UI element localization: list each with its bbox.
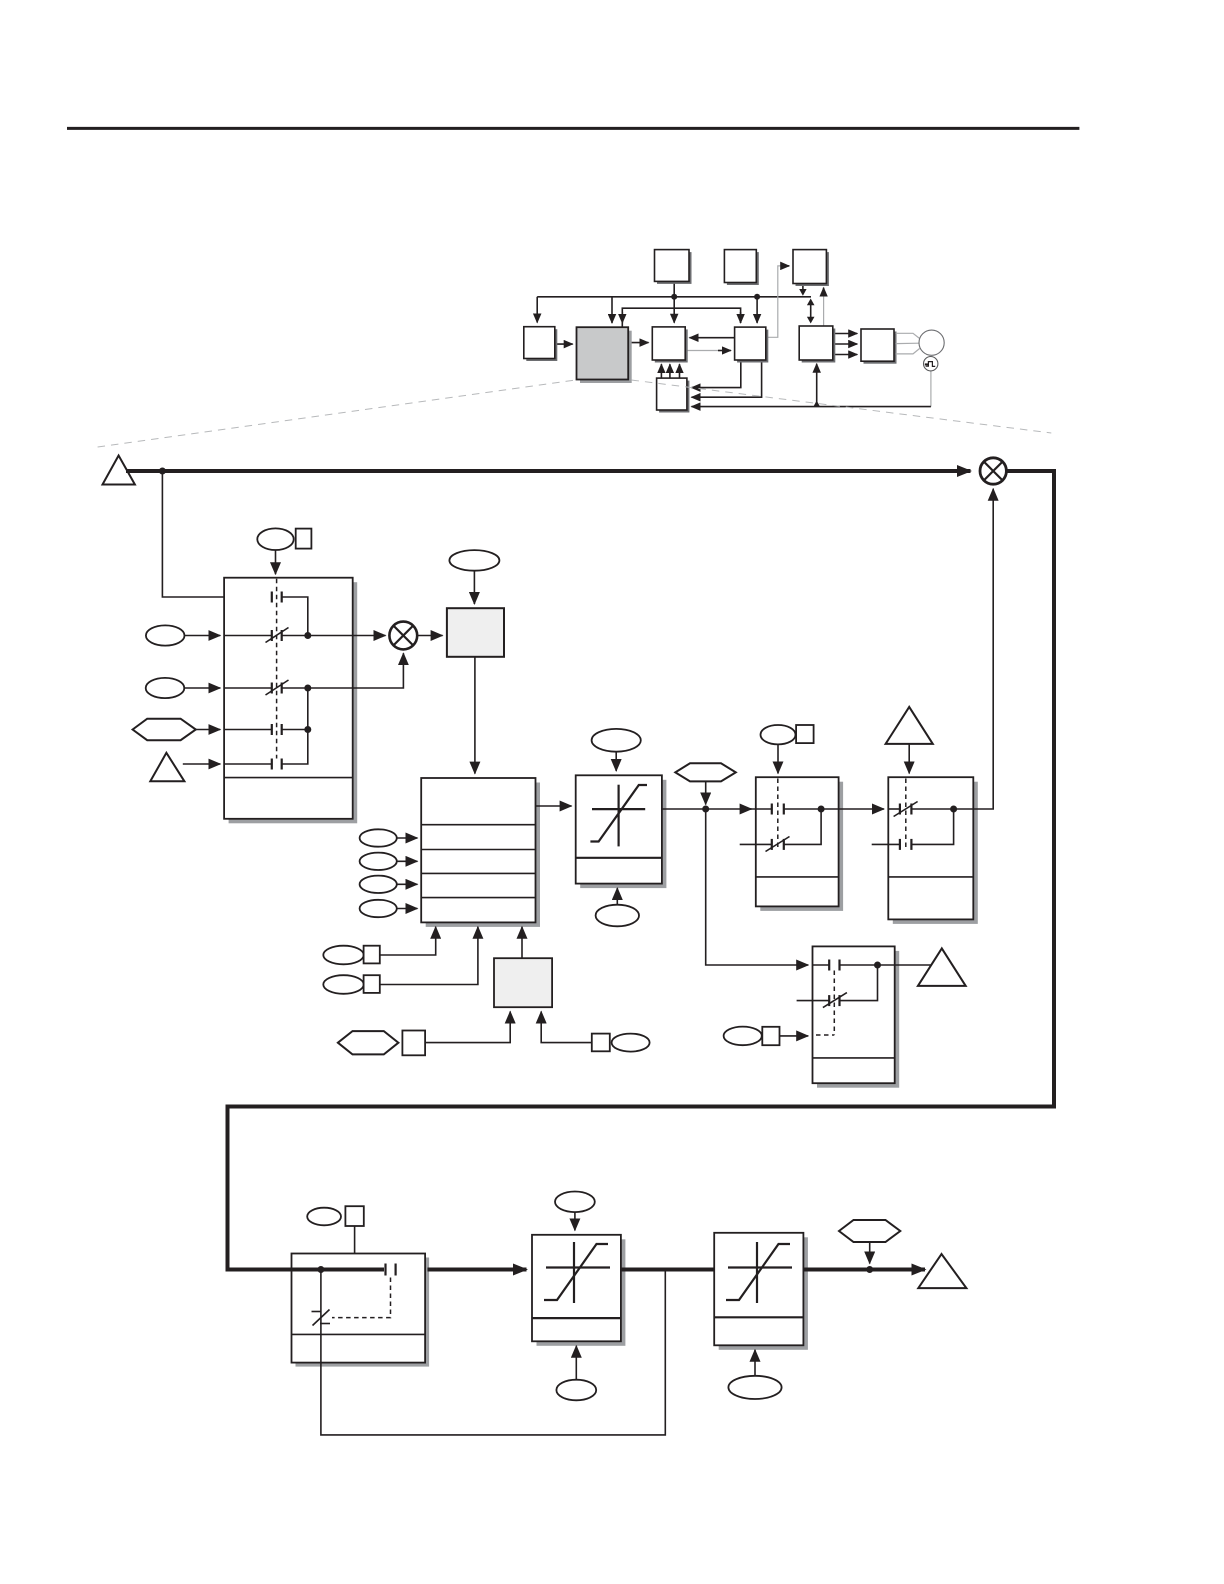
- wire: bus1 drop to OL4: [756, 297, 758, 323]
- wire: row2 out: [282, 635, 308, 637]
- BOX4 divider: [813, 1057, 895, 1059]
- BOXB contact row1 (slashed): [888, 808, 900, 810]
- BOXA shadow: [760, 782, 843, 911]
- input oval IV2: [146, 678, 185, 698]
- BOXA speed hold box: [756, 777, 839, 906]
- wire: box OB1 drop to OL3: [673, 281, 675, 322]
- wire: PO5 drop line into BOX5: [354, 1226, 356, 1254]
- node after RAMP1: [702, 806, 709, 813]
- wire: bus2 right drop arrow into OL4: [740, 312, 742, 323]
- box OB2: [727, 252, 759, 285]
- wire: P4 up into FUNC bottom: [380, 927, 478, 985]
- FUNC input oval 4: [360, 900, 397, 917]
- multiplier M1 cross: [394, 626, 412, 644]
- wire: row2 interior: [224, 635, 272, 637]
- node row4: [304, 726, 311, 733]
- wire: node column row3-row5: [282, 688, 308, 764]
- wire: IV2 arrow: [184, 687, 220, 689]
- wire: row3 out: [282, 687, 308, 689]
- encoder circle: [924, 357, 938, 371]
- contact row1 bars: [271, 592, 273, 603]
- param oval PO4: [724, 1027, 762, 1046]
- hexagon HX4: [839, 1220, 900, 1242]
- motor circle: [919, 330, 944, 355]
- gray scaler box G1: [447, 608, 504, 657]
- wire: bus1 drop to gray box: [611, 297, 613, 323]
- BOX4 contact row2 (slashed): [797, 1000, 830, 1002]
- wire: bus2 horizontal: [622, 308, 740, 327]
- RAMP3 speed shape box: [714, 1233, 803, 1346]
- RAMP3 oval below: [728, 1376, 781, 1399]
- wire: FUNC out to RAMP1: [536, 805, 572, 807]
- gray box G2: [494, 958, 552, 1007]
- selector box shadow: [229, 582, 358, 823]
- wire: G2 up into FUNC bottom: [521, 927, 523, 958]
- wires: OL6 to motor (3-phase, gray): [896, 333, 920, 338]
- RAMP2 limiter glyph: [546, 1266, 610, 1268]
- RAMP3 shadow: [719, 1237, 808, 1350]
- wire: P3 up into FUNC bottom: [380, 927, 436, 955]
- contact row4 bars: [271, 724, 273, 735]
- wire: scale signal to multiplier bottom: [308, 653, 404, 688]
- wire: PO2 arrow into G1: [473, 571, 475, 604]
- wire: row4 out: [282, 729, 308, 731]
- wire: BOX4 out to triangle T4: [878, 964, 931, 966]
- wire: oval into RAMP2 bottom: [575, 1346, 577, 1380]
- RAMP1 acceleration compensation box: [576, 775, 662, 883]
- FUNC input oval 2: [360, 853, 397, 870]
- wire: BOX5 thick out to RAMP2: [428, 1268, 527, 1272]
- wire: PO3 arrow into BOXA: [777, 744, 779, 773]
- wire: node down to BOX4: [706, 809, 809, 965]
- param oval+square pair P3: [323, 946, 363, 965]
- wire: OL1 to gray box: [555, 343, 573, 345]
- BOX5 slash contact on branch: [313, 1310, 330, 1326]
- wire: OL4 right up to OB3 (gray): [767, 266, 790, 337]
- BOXA divider: [756, 876, 839, 878]
- BOX5 divider: [292, 1333, 426, 1335]
- wire: selected ref out to multiplier: [308, 635, 386, 637]
- param square PO4b: [762, 1027, 779, 1045]
- wire: gray box to OL3: [631, 342, 648, 344]
- wire: oval into RAMP1 bottom: [616, 888, 618, 905]
- param square PO1b: [296, 529, 312, 549]
- BOXA dashed control: [777, 779, 779, 850]
- wire: OB3 down arrow to bus1: [802, 284, 804, 290]
- contact row3 bars + slash: [271, 683, 273, 694]
- wire: oval into RAMP3 bottom: [754, 1350, 756, 1376]
- input hexagon HX2: [338, 1031, 399, 1054]
- thick line inside BOX5 to contact: [292, 1268, 385, 1272]
- node: feedback junction: [813, 401, 820, 407]
- FUNC input oval 3: [360, 876, 397, 893]
- wire arrow 4: [397, 908, 418, 910]
- RAMP2 acc/dec ramp box: [532, 1235, 621, 1342]
- wire: oval into RAMP2 top: [574, 1212, 576, 1230]
- BOX4 window/step box: [813, 946, 895, 1083]
- input triangle T1: [103, 456, 135, 485]
- BOXB speed share box: [888, 777, 973, 919]
- wire: OL3 to OL4 (gray with black head): [686, 350, 720, 352]
- RAMP1 oval above: [592, 729, 641, 752]
- input oval IV1: [146, 625, 185, 645]
- hexagon HX3 above node: [675, 763, 736, 781]
- wire: bus1 drop to box OL1: [536, 297, 538, 323]
- wire: PO1 arrow into SEL top: [275, 550, 277, 574]
- wire arrow 3: [397, 883, 418, 885]
- wire: T3 arrow into BOXB: [908, 744, 910, 774]
- param square PO3b: [796, 725, 814, 743]
- wire: bypass path below box: [321, 1271, 665, 1435]
- RAMP3 limiter glyph: [728, 1266, 792, 1268]
- wire: node into BOXA: [740, 808, 752, 810]
- wire: SQ2 to G2 bottom: [425, 1012, 510, 1043]
- wire: double arrow bus1 to OL5: [810, 304, 812, 318]
- param oval PO1: [257, 528, 293, 550]
- RAMP2 oval above: [555, 1192, 595, 1213]
- param oval PO2: [449, 550, 499, 571]
- BOXB contact row2: [872, 843, 900, 845]
- box OSUB: [659, 381, 689, 413]
- wire: OL5 to OL6 line 1: [835, 333, 858, 335]
- contact row2 bars + slash: [271, 630, 273, 641]
- wire: G1 down into FUNC box: [474, 657, 476, 774]
- BOXB node: [950, 806, 957, 813]
- wire: OL5 to OL6 line 3: [835, 354, 858, 356]
- input triangle T2: [150, 753, 184, 782]
- selector divider: [224, 777, 353, 779]
- wire: T2 arrow: [183, 763, 221, 765]
- FUNC input oval 1: [360, 829, 397, 846]
- BOX4 shadow: [817, 951, 899, 1088]
- main thick reference line: [126, 469, 971, 473]
- wire: bus2 left drop arrow into gray box: [621, 312, 623, 323]
- node row3: [304, 685, 311, 692]
- node: bus1 at x757: [754, 294, 760, 300]
- wire: OL4 bottom to OSUB input 1: [692, 361, 741, 388]
- box OB3: [796, 252, 829, 286]
- wire: OL4 bottom to OSUB input 2: [692, 361, 762, 397]
- multiplier M2 circle: [980, 458, 1006, 484]
- box OB1: [657, 252, 692, 284]
- wire: oval into RAMP1 top: [615, 752, 617, 771]
- BOX5 contact bars: [384, 1264, 386, 1276]
- wire: IV1 arrow: [185, 635, 221, 637]
- box OL1: [526, 329, 557, 361]
- wire: encoder feedback to OSUB input 3: [930, 371, 932, 407]
- magnifier dashed line left: [98, 380, 577, 447]
- wire: HX1 arrow: [196, 729, 221, 731]
- wire: node down into selector row1: [162, 471, 271, 597]
- BOXA contact row1: [756, 808, 772, 810]
- wire arrow 2: [397, 860, 418, 862]
- node on main line: [159, 468, 166, 475]
- title rule: [67, 127, 1079, 130]
- BOX5 ramp bypass box: [292, 1254, 426, 1363]
- triangle T4: [918, 948, 966, 986]
- box OL4: [737, 330, 768, 363]
- wire: BOXB out up to multiplier M2: [954, 489, 994, 809]
- node: bus1 x OB1 drop: [671, 294, 677, 300]
- FUNC critical speeds box: [421, 778, 535, 922]
- BOX4 contact row1: [813, 964, 830, 966]
- BOX5 node: [317, 1266, 324, 1273]
- param oval PO5: [307, 1208, 341, 1226]
- wire: HX4 down arrow to node: [869, 1242, 871, 1264]
- triangle T3 above BOXB: [886, 707, 933, 744]
- BOXB dashed control: [905, 779, 907, 850]
- wire: OL4 to OL3: [690, 337, 735, 339]
- output triangle T5: [918, 1254, 966, 1288]
- box OL3: [655, 329, 688, 362]
- multiplier M1 circle: [389, 622, 417, 650]
- BOXA node: [818, 806, 825, 813]
- BOXB shadow: [893, 782, 978, 924]
- wire: row1 out to node column: [282, 597, 308, 636]
- magnifier dashed line right: [632, 380, 1052, 433]
- wire: RAMP1 out to node: [662, 808, 755, 810]
- contact row5 bars: [271, 759, 273, 770]
- BOX5 dashed control: [332, 1278, 391, 1318]
- RAMP3 divider: [714, 1316, 803, 1318]
- RAMP2 oval below: [556, 1380, 596, 1401]
- wire: OL5 up to OB3 (gray): [823, 290, 825, 326]
- param square PO5b: [345, 1206, 363, 1226]
- dashed selector control line: [276, 579, 278, 759]
- wire: feedback up arrow into OL5 bottom: [816, 364, 818, 407]
- RAMP2 shadow: [537, 1239, 626, 1346]
- BOX5 shadow: [296, 1258, 430, 1367]
- node row2: [304, 632, 311, 639]
- BOXA contact row2 (slashed): [740, 843, 772, 845]
- selector box SEL: [224, 578, 353, 819]
- multiplier M2 cross: [985, 462, 1002, 479]
- wire: SQ3 to G2 bottom: [541, 1012, 592, 1043]
- BOX4 node: [874, 962, 881, 969]
- thick feedback path M2 out, right side, bottom, down to BOX5: [228, 471, 1055, 1270]
- wire: bus1 horizontal: [537, 296, 811, 298]
- param oval PO3: [761, 725, 796, 744]
- RAMP1 limiter glyph: [592, 808, 645, 810]
- output node: [866, 1266, 873, 1273]
- BOXB divider: [888, 876, 973, 878]
- wire: PO4 arrow into BOX4: [780, 1035, 809, 1037]
- RAMP1 divider: [576, 857, 662, 859]
- wire: OL5 to OL6 line 2: [835, 343, 858, 345]
- input hexagon HX1: [133, 719, 196, 741]
- wire arrow 1: [397, 837, 418, 839]
- BOX4 dashed control: [833, 971, 835, 1036]
- wire: row3 interior: [224, 687, 272, 689]
- square SQ3: [592, 1034, 610, 1052]
- box OL6 inverter: [864, 332, 897, 364]
- RAMP2 divider: [532, 1317, 621, 1319]
- wire: HX3 down arrow to node: [705, 781, 707, 804]
- wire: row5 interior: [224, 763, 272, 765]
- encoder pulse glyph: [926, 362, 936, 367]
- wire: BOXA out to BOXB: [821, 808, 884, 810]
- square SQ2: [402, 1031, 425, 1056]
- param oval+square pair P4: [323, 975, 363, 994]
- wire: row4 interior: [224, 729, 272, 731]
- gray overview box (highlighted): [580, 331, 632, 383]
- FUNC dividers: [421, 824, 535, 826]
- wire: RAMP2 out to RAMP3: [621, 1268, 714, 1272]
- wire: M1 to gray scaler box: [417, 635, 442, 637]
- oval OV5: [612, 1034, 650, 1052]
- wire: OSUB up arrows to OL3: [660, 364, 662, 378]
- BOX5 bypass branch down: [320, 1270, 322, 1363]
- RAMP1 shadow: [580, 780, 666, 888]
- wire: RAMP3 thick out: [803, 1268, 925, 1272]
- box OL5: [802, 329, 836, 363]
- RAMP1 oval below: [596, 905, 639, 927]
- FUNC box shadow: [426, 783, 540, 927]
